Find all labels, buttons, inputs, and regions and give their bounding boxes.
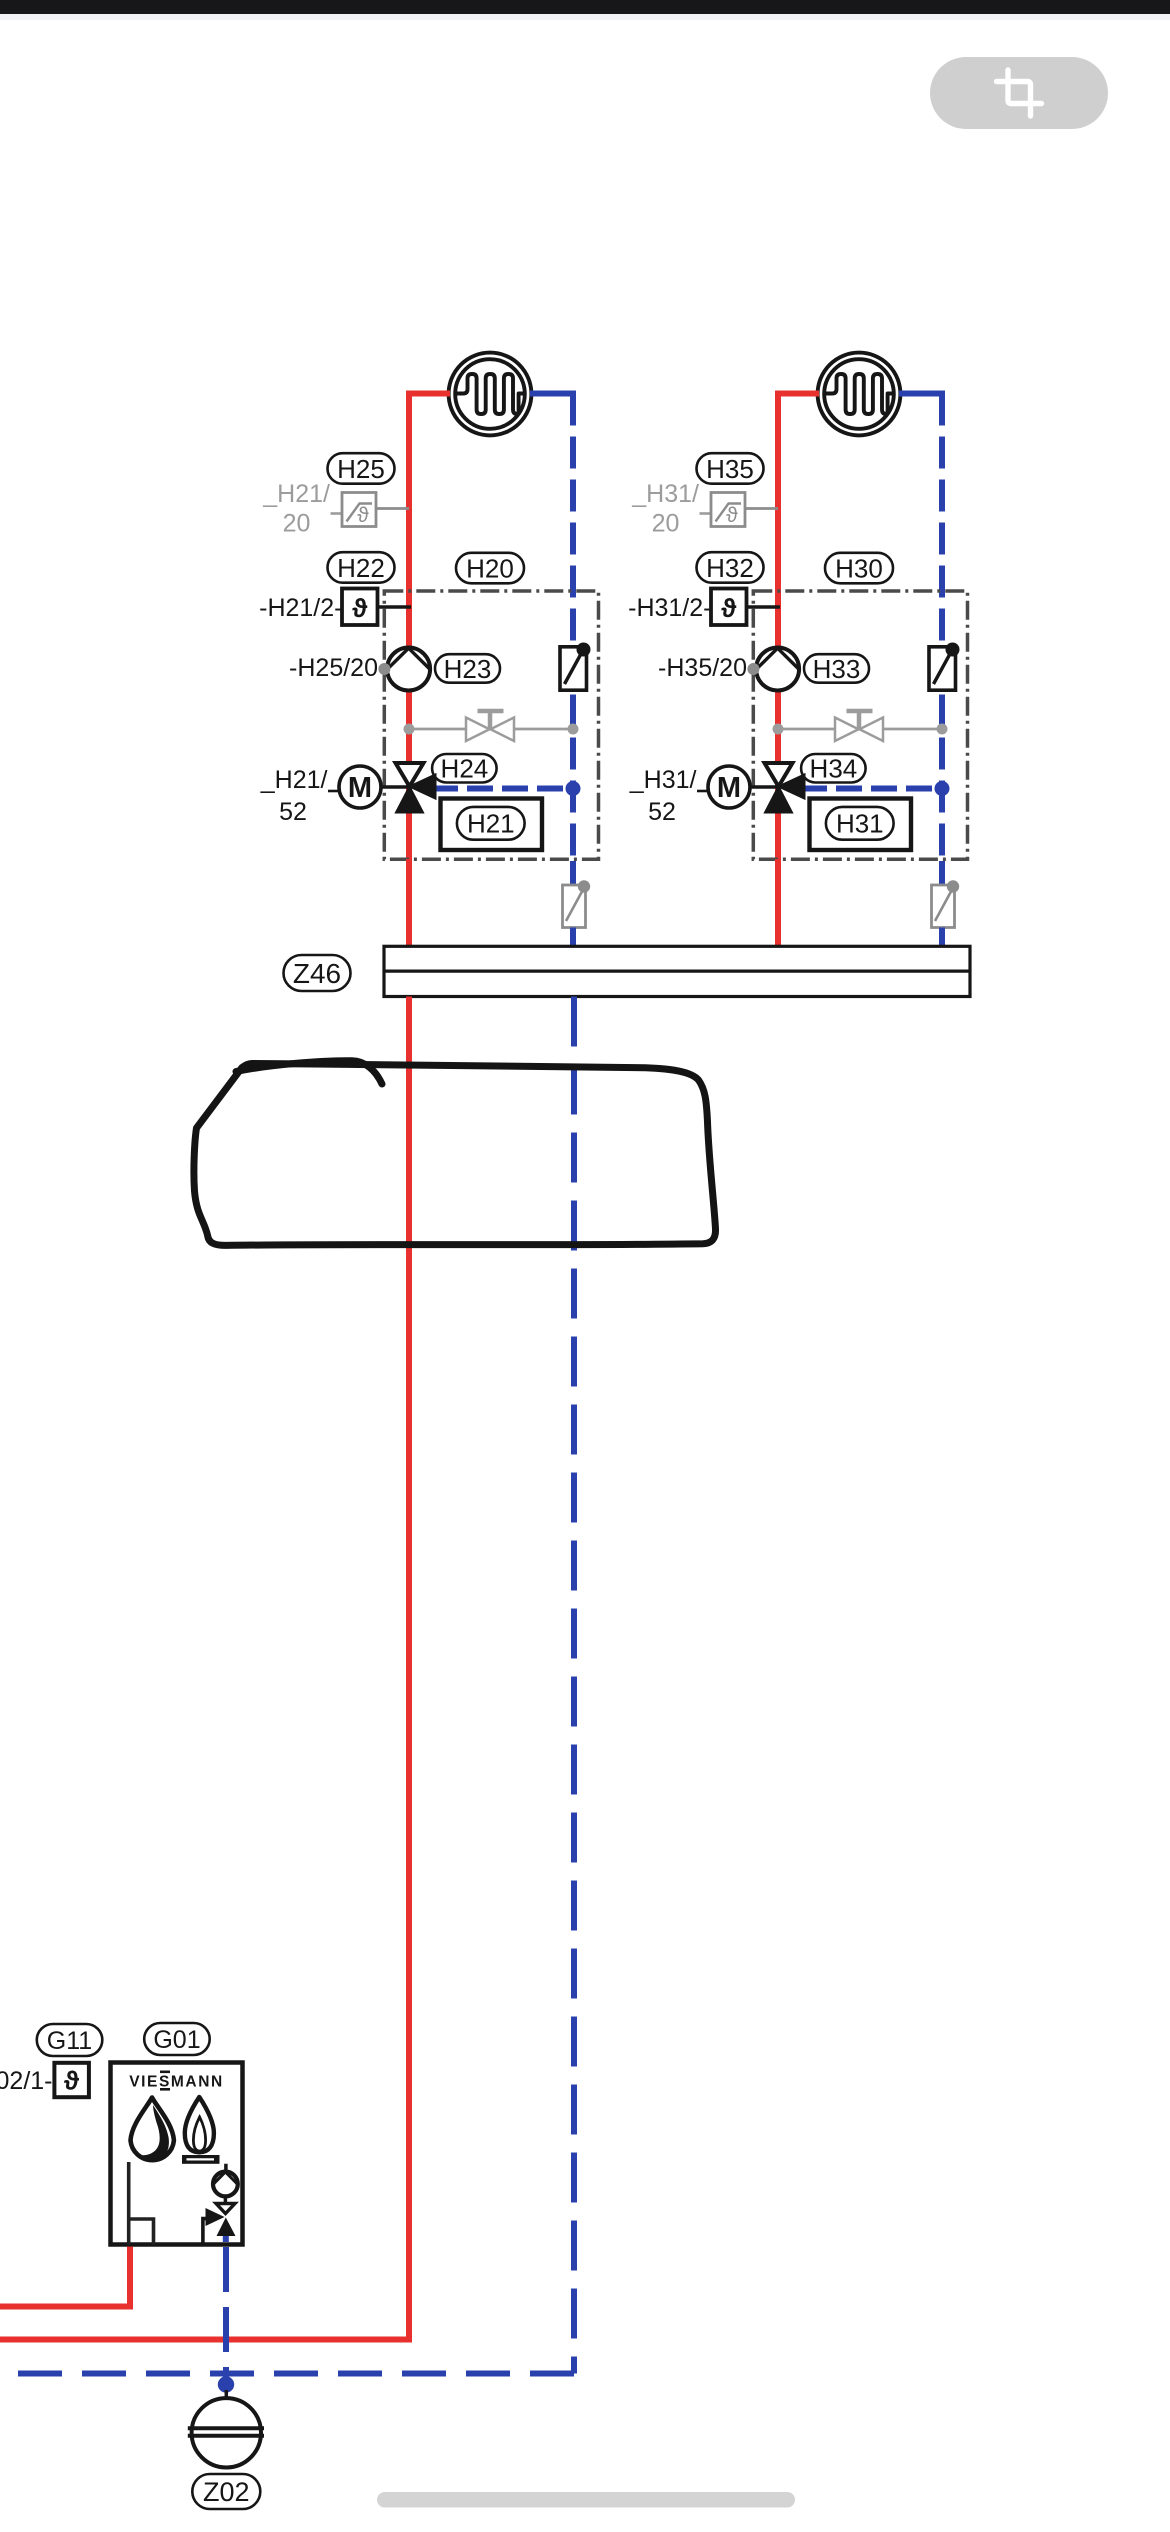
radiator / heat exchanger H1: [449, 353, 532, 436]
svg-text:-H31/2-: -H31/2-: [628, 594, 711, 622]
label pill H34: [801, 754, 866, 783]
svg-text:_H21/: _H21/: [262, 480, 330, 508]
svg-text:20: 20: [283, 510, 311, 538]
status bar (black): [0, 0, 1170, 14]
svg-text:H22: H22: [337, 553, 385, 583]
wire long return (blue dashed): [571, 997, 577, 2374]
burner bar: [182, 2155, 220, 2164]
label pill G01: [144, 2023, 210, 2055]
controller box H31: [810, 799, 912, 851]
svg-text:-H35/20: -H35/20: [658, 654, 747, 682]
wire return blue pipe: [530, 391, 576, 397]
svg-text:-H21/2-: -H21/2-: [259, 594, 342, 622]
label pill H32: [697, 552, 764, 583]
flame icon: [185, 2097, 214, 2152]
svg-text:H23: H23: [444, 654, 492, 684]
svg-text:ϑ: ϑ: [64, 2066, 80, 2096]
svg-text:ϑ: ϑ: [726, 504, 738, 527]
check valve on return line (black): [929, 647, 956, 690]
label pill H24: [432, 754, 497, 783]
svg-text:ϑ: ϑ: [357, 504, 369, 527]
label pill H22: [328, 552, 395, 583]
label pill H35: [697, 453, 764, 484]
boiler internal three-way valve: [216, 2204, 235, 2214]
svg-text:VIESMANN: VIESMANN: [129, 2074, 224, 2091]
boiler internal pump: [224, 2164, 228, 2203]
label pill H30: [825, 553, 893, 584]
temperature sensor H35 (gray square): [711, 493, 745, 527]
label pill H25: [328, 453, 395, 484]
svg-text:H30: H30: [835, 553, 883, 583]
check valve on return line (black): [560, 647, 587, 690]
svg-text:52: 52: [648, 798, 676, 826]
svg-text:H34: H34: [810, 754, 858, 784]
svg-text:M: M: [348, 772, 372, 804]
manifold Z46: [409, 859, 778, 947]
svg-text:H20: H20: [466, 553, 514, 583]
wire boiler return (blue dashed): [223, 2236, 229, 2242]
wire return blue pipe: [899, 391, 945, 397]
svg-text:H31: H31: [836, 809, 884, 839]
svg-text:02/1-: 02/1-: [0, 2067, 53, 2095]
three-way mixing valve: [765, 763, 793, 787]
svg-text:_H31/: _H31/: [631, 480, 699, 508]
svg-text:ϑ: ϑ: [721, 593, 737, 623]
svg-text:G11: G11: [47, 2027, 92, 2055]
wire boiler supply (red): [0, 2247, 130, 2307]
svg-text:Z46: Z46: [293, 958, 341, 989]
crop button: [930, 57, 1108, 129]
balancing valve (gray bowtie): [409, 728, 573, 731]
svg-text:ϑ: ϑ: [352, 593, 368, 623]
hand-drawn annotation blob: [194, 1061, 716, 1246]
label pill Z46: [284, 955, 351, 991]
pump Z02: [225, 2390, 229, 2400]
label pill Z02: [192, 2474, 260, 2509]
svg-text:H33: H33: [813, 654, 861, 684]
svg-text:G01: G01: [153, 2026, 200, 2054]
svg-text:20: 20: [652, 510, 680, 538]
svg-text:H24: H24: [441, 754, 489, 784]
svg-text:H25: H25: [337, 454, 385, 484]
svg-text:-H25/20: -H25/20: [289, 654, 378, 682]
label pill H20: [456, 553, 524, 584]
svg-text:H35: H35: [706, 454, 754, 484]
three-way mixing valve: [396, 763, 424, 787]
home indicator: [377, 2492, 795, 2508]
wire return to mixing valve (blue dashed): [801, 786, 942, 792]
label pill G11: [37, 2024, 103, 2056]
wire return to mixing valve (blue dashed): [432, 786, 573, 792]
temperature sensor H25 (gray square): [342, 493, 376, 527]
svg-text:M: M: [717, 772, 741, 804]
svg-text:_H21/: _H21/: [260, 766, 328, 794]
svg-text:Z02: Z02: [203, 2477, 250, 2507]
svg-text:H32: H32: [706, 553, 754, 583]
svg-text:_H31/: _H31/: [629, 766, 697, 794]
isolation valve below box (gray): [563, 885, 586, 928]
oil drop icon: [131, 2098, 174, 2161]
balancing valve (gray bowtie): [778, 728, 942, 731]
boiler internal chambers: [129, 2162, 154, 2245]
wire supply red pipe: [778, 394, 819, 948]
svg-text:52: 52: [279, 798, 307, 826]
wire long supply (red): [0, 997, 409, 2340]
controller box H21: [441, 799, 543, 851]
group box H30: [753, 591, 967, 859]
boiler body: [111, 2063, 243, 2245]
isolation valve below box (gray): [932, 885, 955, 928]
group box H20: [384, 591, 598, 859]
radiator / heat exchanger H2: [818, 353, 901, 436]
svg-text:H21: H21: [467, 809, 515, 839]
wire supply red pipe: [409, 394, 450, 948]
